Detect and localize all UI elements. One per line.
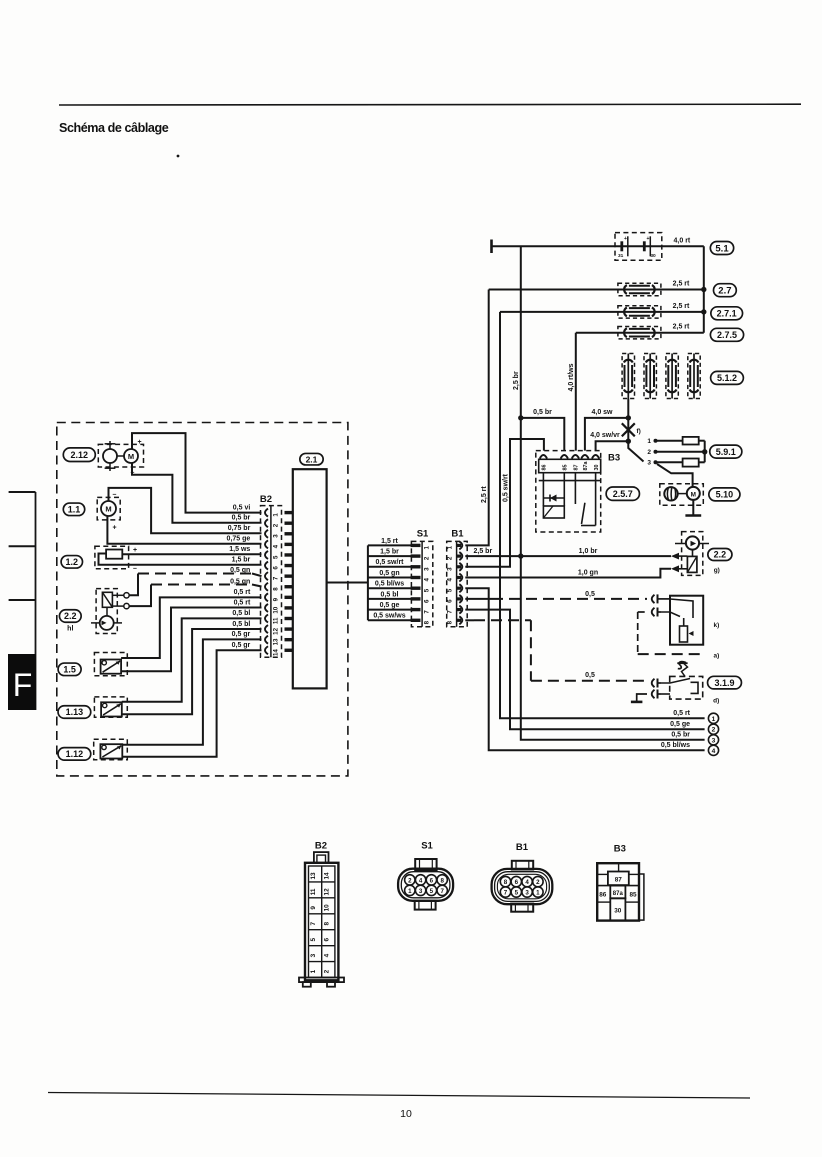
svg-text:M: M (105, 505, 111, 514)
svg-text:1: 1 (408, 888, 412, 895)
wire battery feed 2,5 br down to node 3 0,5 br (513, 246, 705, 740)
svg-text:2,5 rt: 2,5 rt (673, 324, 690, 331)
svg-text:4,0 sw: 4,0 sw (591, 409, 613, 416)
svg-text:0,5 bl: 0,5 bl (232, 621, 250, 628)
svg-text:9: 9 (273, 597, 280, 601)
svg-text:B3: B3 (608, 453, 620, 464)
svg-text:1: 1 (447, 545, 454, 549)
svg-text:g): g) (714, 567, 720, 574)
svg-text:0,5 sw/rt: 0,5 sw/rt (502, 473, 509, 502)
svg-text:S1: S1 (421, 841, 433, 852)
svg-text:0,5: 0,5 (585, 591, 595, 598)
page title (59, 121, 169, 135)
svg-text:6: 6 (515, 879, 519, 886)
svg-text:0,5: 0,5 (585, 672, 595, 679)
svg-text:3: 3 (310, 953, 317, 957)
svg-text:0,5 bl/ws: 0,5 bl/ws (661, 742, 690, 749)
left assembly enclosure box (57, 423, 348, 776)
wire 0,5 gr (B2 pin 14) (122, 642, 261, 757)
svg-text:k): k) (714, 622, 720, 629)
svg-text:2,5 br: 2,5 br (513, 371, 520, 390)
connector view B1 (492, 842, 553, 912)
svg-text:0,5 rt: 0,5 rt (673, 710, 690, 717)
svg-text:1,0 gn: 1,0 gn (578, 569, 598, 576)
fuse S (2.7 row) 2,5 rt (489, 281, 704, 296)
svg-text:10: 10 (400, 1108, 412, 1120)
wire 0,5 bl (B2 pin 11) (122, 610, 262, 702)
svg-text:1: 1 (712, 716, 716, 723)
page footer rule (48, 1093, 750, 1099)
node 4 (708, 745, 718, 755)
svg-text:1: 1 (273, 513, 280, 517)
svg-text:4: 4 (419, 877, 423, 884)
svg-text:4: 4 (525, 879, 529, 886)
wire 1,5 br (B2 pin 6) (99, 554, 262, 565)
fuel sender + pump unit (5.10) (660, 484, 704, 506)
svg-text:5.1: 5.1 (715, 243, 729, 254)
wire 0,5 rt (B2 pin 10) (121, 599, 261, 671)
svg-text:0,5 bl/ws: 0,5 bl/ws (375, 581, 404, 588)
svg-text:3: 3 (447, 567, 454, 571)
svg-text:6: 6 (424, 599, 431, 603)
svg-text:14: 14 (273, 649, 280, 656)
wire 0,5 rt (B2 pin 9) (121, 589, 261, 658)
svg-text:–: – (113, 492, 117, 499)
svg-text:8: 8 (424, 620, 431, 624)
svg-text:+: + (624, 236, 627, 242)
svg-text:8: 8 (504, 879, 508, 886)
svg-text:2,5 rt: 2,5 rt (673, 281, 690, 288)
svg-text:4: 4 (273, 544, 280, 548)
oval 5.1.2 (711, 371, 744, 384)
svg-text:31: 31 (618, 253, 624, 259)
wire 0,5 br (B2 pin 2) (132, 463, 262, 523)
svg-text:0,5 br: 0,5 br (533, 409, 552, 416)
svg-text:2,5 br: 2,5 br (474, 548, 493, 555)
connector B2 (14-pin strip) (260, 494, 293, 657)
oval 2.7.1 (711, 307, 743, 320)
oval 2.5.7 (606, 487, 639, 500)
svg-text:0,5 rt: 0,5 rt (234, 599, 251, 606)
svg-text:1.5: 1.5 (63, 665, 76, 675)
svg-text:F: F (13, 667, 33, 703)
svg-text:1,5 br: 1,5 br (232, 557, 251, 564)
wire 4,0 rt battery to 5.1 (662, 237, 704, 246)
left margin index ruler (9, 492, 36, 710)
wire B1 pin5 0,5 bl/ws to node 4 (465, 588, 704, 750)
component 1.12 (solenoid valve) (58, 739, 127, 760)
svg-text:5: 5 (273, 555, 280, 559)
svg-text:0,5 gr: 0,5 gr (232, 631, 251, 638)
wire 4,0 sw/vr relay t30 (590, 432, 631, 450)
switch contact toward terminal 3 (628, 441, 643, 461)
svg-text:87: 87 (574, 465, 580, 471)
svg-text:Schéma de câblage: Schéma de câblage (59, 121, 169, 135)
svg-text:7: 7 (440, 888, 444, 895)
node 3 (708, 735, 718, 745)
svg-text:7: 7 (504, 890, 508, 897)
svg-text:hl: hl (67, 626, 73, 633)
svg-text:S1: S1 (417, 529, 429, 540)
svg-text:87a: 87a (613, 891, 624, 897)
oval 2.7 (714, 284, 737, 297)
svg-text:2.2: 2.2 (714, 550, 727, 560)
svg-text:2.7.1: 2.7.1 (717, 309, 737, 319)
svg-text:2,5 rt: 2,5 rt (481, 486, 488, 503)
wire B1 pin8 0,5 to unit d) (465, 620, 647, 681)
svg-text:0,5 bl: 0,5 bl (232, 610, 250, 617)
svg-text:1.12: 1.12 (66, 749, 84, 759)
svg-text:6: 6 (430, 877, 434, 884)
svg-text:30: 30 (594, 465, 600, 471)
svg-text:7: 7 (273, 576, 280, 580)
svg-text:10: 10 (273, 606, 280, 613)
svg-text:B2: B2 (260, 494, 272, 505)
svg-text:2: 2 (408, 877, 412, 884)
component 2.12 (sender + motor) (63, 439, 143, 477)
svg-text:2: 2 (647, 449, 651, 456)
svg-text:8: 8 (273, 587, 280, 591)
svg-text:87: 87 (615, 877, 623, 884)
ground below 5.10 (685, 500, 701, 516)
svg-text:11: 11 (310, 888, 317, 895)
svg-text:2.2: 2.2 (64, 611, 77, 621)
oval 3.1.9 (708, 676, 742, 704)
svg-text:11: 11 (273, 617, 280, 624)
svg-text:14: 14 (323, 872, 330, 880)
svg-text:8: 8 (447, 620, 454, 624)
wire fuse 2.7.1 to node 1 0,5 rt (500, 312, 705, 718)
svg-text:+: + (138, 439, 142, 446)
svg-text:3: 3 (525, 890, 529, 897)
svg-text:2: 2 (536, 879, 540, 886)
battery terminal 31 bar (490, 240, 493, 254)
wire 4,0 rt/ws fuse 2.7.5 to relay t87 (568, 333, 576, 451)
connector S1 (8-pin) (411, 529, 433, 627)
page header rule (59, 103, 801, 106)
svg-text:0,5 gn: 0,5 gn (230, 578, 250, 585)
svg-text:6: 6 (273, 566, 280, 570)
svg-text:6: 6 (447, 599, 454, 603)
wire B1 pin4 1,0 gn to unit g) (465, 569, 671, 578)
svg-text:0,5 sw/ws: 0,5 sw/ws (373, 613, 405, 620)
svg-text:30: 30 (650, 253, 656, 259)
svg-text:30: 30 (614, 908, 622, 915)
svg-text:9: 9 (310, 906, 317, 910)
svg-text:1,0 br: 1,0 br (579, 548, 598, 555)
harness wire 2.1 to S1 (327, 582, 368, 584)
svg-text:B2: B2 (315, 841, 327, 852)
svg-text:4,0 sw/vr: 4,0 sw/vr (590, 432, 620, 439)
svg-text:1.13: 1.13 (66, 707, 84, 717)
wire B1 pin2 2,5 br / 1,0 br to unit g) (465, 548, 671, 559)
svg-text:10: 10 (323, 904, 330, 912)
node 1 (708, 713, 718, 723)
wire 0,5 bl (B2 pin 12) (122, 621, 262, 715)
section tab F (8, 654, 36, 710)
unit k) thermo time switch (638, 594, 720, 668)
wire B1 pin6 0,5 to unit k) (465, 591, 647, 599)
svg-text:87a: 87a (583, 461, 589, 471)
fuse bank 5.1.2 (four fuses) (622, 354, 700, 399)
wire 4,0 sw fuse to relay t87a (585, 399, 631, 451)
component 1.1 (fuel pump motor) (63, 492, 120, 532)
svg-text:86: 86 (599, 892, 607, 899)
svg-text:2.5.7: 2.5.7 (613, 489, 633, 499)
svg-text:2: 2 (273, 523, 280, 527)
wire B1 pin3 0,5 sw/rt to relay B3 t86 (465, 439, 544, 567)
component 1.13 (solenoid valve) (58, 697, 127, 718)
svg-text:4: 4 (712, 748, 716, 755)
svg-text:1,5 br: 1,5 br (380, 549, 399, 556)
svg-text:8: 8 (323, 922, 330, 926)
svg-text:+: + (647, 236, 650, 242)
svg-text:B3: B3 (614, 844, 626, 855)
svg-text:12: 12 (273, 627, 280, 634)
fuse S (2.7.1 row) 2,5 rt (500, 303, 704, 318)
wire 0,5 gn (B2 pin 8, optional) (129, 578, 261, 606)
connector view S1 (398, 841, 453, 910)
svg-text:0,5 ge: 0,5 ge (670, 721, 690, 728)
svg-text:3: 3 (273, 534, 280, 538)
wire terminal 3 to fuel sender (657, 464, 693, 487)
svg-text:3: 3 (712, 737, 716, 744)
svg-text:5.9.1: 5.9.1 (716, 447, 736, 457)
svg-text:5.10: 5.10 (716, 490, 734, 500)
svg-text:2: 2 (447, 556, 454, 560)
oval 2.7.5 (710, 328, 743, 341)
svg-text:2.1: 2.1 (306, 454, 318, 464)
svg-text:+: + (113, 525, 117, 532)
svg-text:4: 4 (447, 578, 454, 582)
svg-text:2.7: 2.7 (718, 286, 731, 297)
fuse S (2.7.5 row) 2,5 rt (576, 324, 704, 339)
page number (400, 1108, 412, 1120)
svg-text:1.1: 1.1 (68, 505, 81, 515)
wire B1 pin1 2,5 rt to fuse 2.7 (465, 290, 488, 546)
svg-text:5: 5 (515, 890, 519, 897)
svg-text:2,5 rt: 2,5 rt (673, 303, 690, 310)
svg-text:0,5 gn: 0,5 gn (379, 570, 399, 577)
wire 0,5 br battery branch to relay t85 (521, 409, 565, 451)
svg-text:1,5 ws: 1,5 ws (229, 546, 250, 553)
svg-text:5: 5 (424, 588, 431, 592)
unit g) fuel gauge (2.2) (671, 532, 709, 576)
svg-text:2: 2 (712, 727, 716, 734)
svg-text:5: 5 (310, 937, 317, 941)
svg-text:2: 2 (323, 969, 330, 973)
harness fan-out ladder (368, 538, 411, 621)
svg-text:d): d) (713, 698, 719, 705)
oval 5.1 (710, 242, 733, 255)
battery A (dashed box with cells) (493, 233, 662, 261)
svg-text:4: 4 (424, 578, 431, 582)
component 1.5 (solenoid valve) (58, 653, 127, 676)
stray ink dot (177, 155, 180, 158)
svg-text:0,5 bl: 0,5 bl (381, 591, 399, 598)
wire 0,5 gr (B2 pin 13) (122, 631, 261, 745)
svg-text:2: 2 (424, 556, 431, 560)
svg-text:8: 8 (440, 877, 444, 884)
svg-text:0,5 ge: 0,5 ge (380, 602, 400, 609)
svg-text:2.12: 2.12 (71, 450, 89, 460)
wire 1,5 ws (B2 pin 5) (122, 546, 261, 554)
component 2.2 hl (resistor + blower) (59, 589, 129, 634)
svg-text:M: M (128, 452, 134, 461)
svg-text:2.7.5: 2.7.5 (717, 330, 737, 340)
svg-text:5: 5 (430, 888, 434, 895)
component 1.2 (glow element) (61, 546, 137, 572)
svg-text:13: 13 (273, 638, 280, 645)
svg-text:1.2: 1.2 (66, 557, 79, 567)
svg-text:4: 4 (323, 953, 330, 957)
svg-text:3.1.9: 3.1.9 (714, 678, 734, 688)
svg-text:7: 7 (310, 922, 317, 926)
svg-text:5: 5 (447, 588, 454, 592)
svg-text:3: 3 (647, 460, 651, 467)
svg-text:0,75 ge: 0,75 ge (227, 536, 251, 543)
wire 0,75 ge (B2 pin 4) (107, 516, 261, 544)
svg-text:0,5 sw/rt: 0,5 sw/rt (375, 559, 404, 566)
supply bus vertical (701, 246, 706, 332)
connector view B3 (597, 844, 644, 921)
oval 5.9.1 (710, 445, 742, 458)
svg-text:0,5 gr: 0,5 gr (232, 642, 251, 649)
svg-text:0,5 gn: 0,5 gn (230, 567, 250, 574)
svg-text:+: + (133, 547, 137, 554)
svg-text:3: 3 (424, 567, 431, 571)
svg-text:f): f) (637, 428, 641, 435)
oval 2.2 right (708, 549, 732, 575)
svg-text:1: 1 (647, 438, 651, 445)
terminals 1 2 3 with resistors (5.9.1) (647, 437, 707, 467)
wire 0,5 vi (B2 pin 1) (132, 433, 262, 512)
svg-text:1,5 rt: 1,5 rt (381, 538, 398, 545)
unit d) pressure switch (3.1.9) (531, 663, 703, 702)
svg-text:0,5 vi: 0,5 vi (233, 504, 251, 511)
wire B1 pin7 0,5 ge to node 2 (465, 610, 704, 730)
svg-text:1: 1 (424, 545, 431, 549)
svg-text:a): a) (714, 653, 720, 660)
relay B3 (536, 451, 620, 532)
svg-text:B1: B1 (451, 529, 464, 540)
svg-text:5.1.2: 5.1.2 (717, 373, 737, 383)
node 2 (708, 724, 718, 734)
svg-text:–: – (133, 566, 137, 573)
svg-text:6: 6 (323, 937, 330, 941)
svg-text:4,0 rt/ws: 4,0 rt/ws (568, 363, 575, 391)
wire 0,5 gn (B2 pin 7, optional) (129, 567, 261, 595)
svg-text:7: 7 (447, 610, 454, 614)
splice X f) (622, 418, 641, 441)
svg-text:86: 86 (542, 465, 548, 471)
control unit 2.1 (293, 453, 327, 688)
svg-text:12: 12 (323, 888, 330, 896)
connector B1 (8-pin) (447, 529, 468, 627)
svg-text:13: 13 (310, 872, 317, 880)
svg-text:M: M (691, 491, 696, 498)
svg-text:4,0 rt: 4,0 rt (674, 237, 691, 244)
svg-text:1: 1 (310, 969, 317, 973)
svg-text:0,5 br: 0,5 br (232, 515, 251, 522)
svg-text:1: 1 (536, 890, 540, 897)
svg-text:85: 85 (629, 892, 637, 899)
svg-text:0,5 rt: 0,5 rt (234, 589, 251, 596)
svg-text:0,75 br: 0,75 br (228, 525, 251, 532)
svg-text:7: 7 (424, 610, 431, 614)
svg-text:0,5 br: 0,5 br (671, 732, 690, 739)
oval 5.10 (709, 488, 740, 501)
svg-text:3: 3 (419, 888, 423, 895)
wire 0,75 br (B2 pin 3) (109, 488, 262, 533)
svg-text:B1: B1 (516, 842, 529, 853)
svg-text:85: 85 (563, 465, 569, 471)
connector view B2 (299, 841, 344, 987)
